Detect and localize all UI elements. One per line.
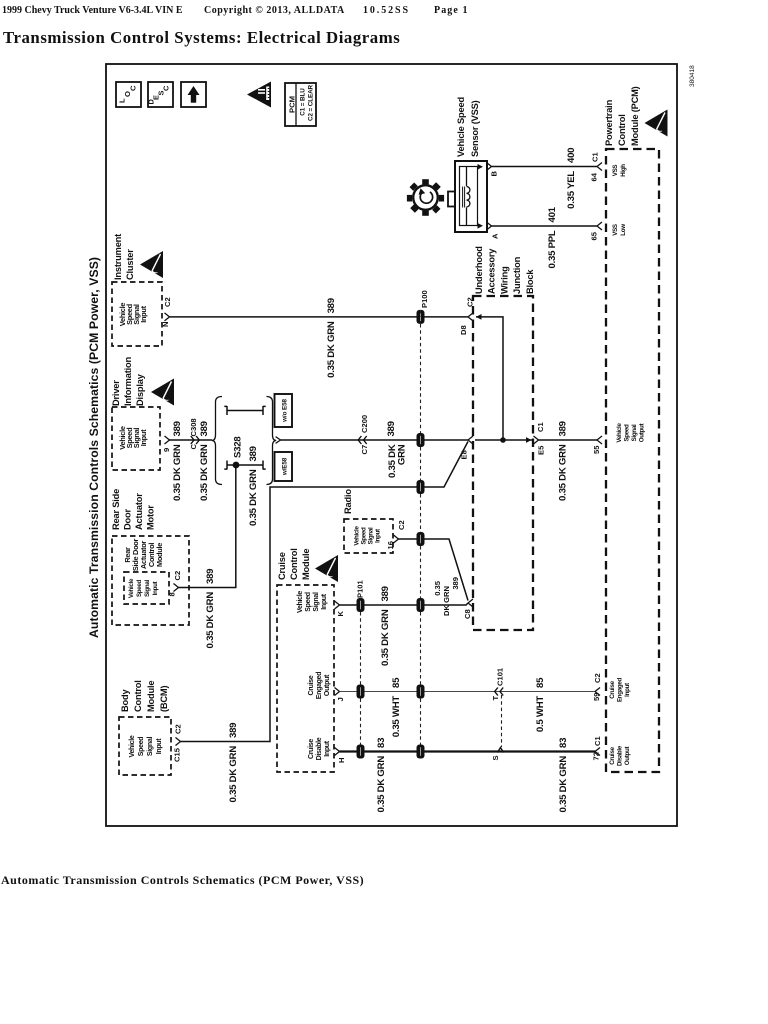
svg-text:380418: 380418 [689, 65, 696, 87]
wire pin K to junction C8 [340, 603, 469, 605]
svg-text:389: 389 [380, 586, 391, 601]
svg-text:0.35 PPL: 0.35 PPL [547, 230, 558, 268]
svg-text:Actuator: Actuator [134, 493, 144, 530]
svg-text:Input: Input [139, 429, 148, 446]
svg-text:B: B [490, 171, 499, 177]
junction internal arrowhead at D8 [476, 314, 482, 320]
wire VSS B to PCM 64 [492, 166, 598, 168]
svg-text:Engaged: Engaged [316, 672, 323, 699]
pin E8 chevron [468, 436, 473, 444]
pin 9 chevron [165, 436, 170, 444]
inline connector barrel on K wire at harness [417, 598, 425, 612]
VSS core lines [463, 187, 465, 208]
svg-text:389: 389 [199, 421, 210, 436]
svg-text:Input: Input [375, 529, 382, 543]
svg-text:Door: Door [123, 509, 133, 530]
pin J chevron [335, 688, 340, 696]
svg-text:Cruise: Cruise [277, 552, 287, 580]
svg-text:Low: Low [620, 224, 627, 236]
svg-text:VSS: VSS [612, 224, 619, 236]
pin D8 chevron [468, 313, 473, 321]
gear icon of VSS [399, 171, 451, 223]
svg-text:Control: Control [133, 680, 143, 712]
svg-text:0.5 WHT: 0.5 WHT [535, 696, 546, 732]
svg-text:A: A [491, 233, 500, 239]
svg-text:C200: C200 [360, 415, 369, 433]
VSS inner winding box [460, 167, 478, 226]
svg-text:w/o E58: w/o E58 [282, 399, 289, 423]
wire pin 8 to splice S328 [179, 467, 236, 588]
w/o E58 tag box [275, 394, 293, 427]
svg-text:Cruise: Cruise [609, 746, 616, 764]
svg-text:C2: C2 [174, 724, 183, 734]
svg-text:389: 389 [386, 421, 397, 436]
svg-text:S: S [491, 755, 500, 760]
svg-text:C2: C2 [593, 673, 602, 683]
icon box up-arrow [181, 82, 206, 107]
svg-text:Speed: Speed [624, 424, 631, 442]
rear side door actuator motor outer box [112, 536, 189, 625]
svg-text:Transmission Control Systems:: Transmission Control Systems: Electrical… [3, 28, 400, 47]
svg-text:389: 389 [205, 569, 216, 584]
svg-text:C2 = CLEAR: C2 = CLEAR [308, 84, 315, 120]
svg-text:Block: Block [525, 269, 535, 294]
svg-text:Control: Control [617, 114, 627, 146]
svg-text:Vehicle: Vehicle [354, 526, 361, 546]
svg-text:Control: Control [289, 548, 299, 580]
svg-text:10.52SS: 10.52SS [363, 5, 410, 16]
svg-text:Vehicle: Vehicle [297, 591, 304, 613]
svg-text:Output: Output [324, 674, 331, 696]
svg-text:55: 55 [592, 445, 601, 454]
svg-text:C1: C1 [536, 422, 545, 432]
svg-text:w/E58: w/E58 [282, 457, 289, 476]
VSS connector tab [448, 192, 455, 207]
inline connector P100 barrel [417, 310, 425, 324]
svg-text:Module: Module [146, 681, 156, 712]
pin 55 chevron [597, 436, 602, 444]
svg-text:C2: C2 [397, 520, 406, 530]
svg-text:Motor: Motor [146, 505, 156, 530]
wire pin H to PCM 72 (heavy) [340, 750, 596, 752]
svg-text:Input: Input [321, 593, 328, 610]
junction internal arrowhead at E5 [526, 437, 532, 443]
svg-text:64: 64 [590, 172, 599, 181]
svg-text:L: L [118, 98, 127, 103]
C101 connector link T to S [501, 695, 503, 747]
wire pin 9 to C308 [170, 439, 213, 441]
svg-text:0.35 YEL: 0.35 YEL [566, 171, 577, 209]
hotlink triangle (PCM) [645, 110, 668, 137]
harness connector line P101 (dashed) [360, 612, 362, 745]
wire to junction block E8 via C200 [281, 439, 469, 441]
svg-text:GRN: GRN [397, 444, 408, 465]
inline connector C200 chevrons [358, 436, 367, 444]
inline connector P101 barrel on K wire [357, 598, 365, 612]
svg-text:Vehicle: Vehicle [129, 735, 136, 757]
svg-text:Disable: Disable [316, 737, 323, 760]
svg-text:0.35 DK GRN: 0.35 DK GRN [228, 746, 239, 803]
rear side door actuator control module box [124, 572, 169, 604]
svg-text:83: 83 [376, 738, 387, 748]
svg-text:85: 85 [535, 677, 546, 688]
svg-text:Sensor (VSS): Sensor (VSS) [470, 100, 480, 157]
svg-text:Speed: Speed [305, 592, 312, 612]
wire C15 to junction E8 [181, 442, 469, 742]
svg-text:C101: C101 [496, 667, 505, 686]
svg-text:0.35 DK GRN: 0.35 DK GRN [380, 609, 391, 666]
svg-text:389: 389 [326, 298, 337, 313]
svg-text:Cruise: Cruise [308, 739, 315, 759]
w/E58 alternative wire segment [224, 461, 265, 470]
svg-text:0.35 DK GRN: 0.35 DK GRN [199, 444, 210, 501]
svg-text:Cruise: Cruise [609, 680, 616, 698]
svg-text:Signal: Signal [313, 592, 320, 612]
junction internal node [500, 437, 506, 443]
inline connector P101 barrel on H wire [357, 745, 365, 759]
svg-text:Display: Display [135, 373, 145, 406]
svg-text:Body: Body [120, 689, 130, 712]
svg-text:0.35 WHT: 0.35 WHT [391, 696, 402, 738]
pin 59 chevron [595, 688, 600, 696]
pin N chevron [165, 313, 170, 321]
svg-text:Vehicle: Vehicle [128, 578, 135, 598]
svg-text:59: 59 [592, 693, 601, 701]
svg-text:Rear Side: Rear Side [111, 489, 121, 530]
svg-text:0.35 DK GRN: 0.35 DK GRN [248, 469, 259, 526]
svg-text:Cruise: Cruise [308, 675, 315, 695]
svg-text:N: N [161, 322, 170, 327]
w/E58 tag box [275, 452, 293, 481]
pin B chevron [487, 163, 492, 171]
svg-text:0.35 DK GRN: 0.35 DK GRN [376, 756, 387, 813]
pin K chevron [335, 601, 340, 609]
svg-text:Radio: Radio [343, 489, 353, 514]
svg-text:DK GRN: DK GRN [442, 586, 451, 616]
wire N/C2 to junction block D8 [170, 316, 469, 318]
svg-text:Disable: Disable [617, 745, 624, 766]
svg-text:Vehicle Speed: Vehicle Speed [456, 97, 466, 157]
svg-text:Output: Output [624, 747, 631, 766]
svg-text:0.35 DK GRN: 0.35 DK GRN [172, 444, 183, 501]
svg-text:Driver: Driver [111, 380, 121, 406]
pin A chevron [487, 222, 492, 230]
pin 8 chevron [174, 584, 179, 592]
right option brace [267, 397, 277, 485]
svg-text:8: 8 [168, 592, 177, 596]
inline connector barrel on BCM wire at harness [417, 480, 425, 494]
svg-text:Junction: Junction [512, 256, 522, 294]
svg-text:K: K [336, 611, 345, 617]
svg-text:Cluster: Cluster [125, 249, 135, 280]
svg-text:16: 16 [386, 541, 395, 549]
svg-text:Information: Information [123, 357, 133, 406]
hotlink triangle (cruise control module) [315, 555, 338, 582]
legend box PCM connectors [285, 83, 316, 126]
svg-text:H: H [337, 758, 346, 763]
junction internal bus E8-E5 [475, 439, 533, 441]
w/o E58 alternative wire segment [224, 406, 265, 415]
svg-text:T: T [491, 696, 500, 701]
main diagram border [106, 64, 677, 826]
svg-text:D8: D8 [459, 325, 468, 335]
svg-text:Input: Input [156, 738, 163, 755]
svg-text:PCM: PCM [288, 96, 297, 113]
inline connector C308 chevrons [191, 436, 200, 444]
svg-text:Input: Input [624, 683, 631, 697]
svg-text:Instrument: Instrument [113, 234, 123, 280]
wire pin 16 to junction C8 [399, 539, 469, 601]
pin C15 chevron [176, 738, 181, 746]
svg-text:C2: C2 [173, 571, 182, 581]
VSS internal arrowhead A [478, 223, 484, 229]
inline connector S chevron on H wire [498, 748, 504, 753]
svg-text:Engaged: Engaged [617, 677, 624, 702]
svg-text:0.35 DK GRN: 0.35 DK GRN [558, 444, 569, 501]
svg-text:E5: E5 [537, 445, 546, 455]
svg-text:83: 83 [558, 738, 569, 748]
svg-text:Underhood: Underhood [474, 246, 484, 294]
svg-text:Powertrain: Powertrain [604, 99, 614, 146]
junction internal bus D8-E8 [476, 317, 503, 440]
icon up-arrow glyph [188, 86, 200, 95]
svg-text:C1 = BLU: C1 = BLU [300, 88, 307, 116]
svg-text:400: 400 [566, 148, 577, 163]
inline connector C101 chevrons on J wire [495, 688, 504, 696]
svg-text:0.35 DK GRN: 0.35 DK GRN [558, 756, 569, 813]
pin C8 chevron [468, 599, 473, 607]
splice S328 [233, 462, 240, 469]
svg-text:High: High [620, 164, 627, 177]
svg-text:0.35 DK GRN: 0.35 DK GRN [205, 592, 216, 649]
inline connector barrel on H wire at harness [417, 745, 425, 759]
svg-text:Automatic Transmission Control: Automatic Transmission Controls Schemati… [1, 873, 364, 887]
pin 64 chevron [597, 163, 602, 171]
inline connector P101 barrel on J wire [357, 685, 365, 699]
pin E5 chevron [534, 436, 539, 444]
svg-text:VSS: VSS [612, 165, 619, 177]
svg-text:Signal: Signal [368, 527, 375, 544]
inline connector barrel on J wire at harness [417, 685, 425, 699]
hotlink triangle (toolbar) [247, 82, 271, 108]
svg-text:Signal: Signal [631, 424, 638, 441]
svg-text:C15: C15 [173, 747, 182, 762]
svg-text:389: 389 [248, 446, 259, 461]
svg-text:85: 85 [391, 677, 402, 688]
svg-text:Module: Module [301, 549, 311, 580]
svg-text:Accessory: Accessory [487, 248, 497, 294]
svg-text:Output: Output [639, 424, 646, 443]
svg-text:Wiring: Wiring [499, 266, 509, 294]
driver information display box [112, 407, 160, 470]
wire E5 to PCM pin 55 [539, 439, 598, 441]
VSS coil [467, 167, 470, 226]
svg-text:J: J [336, 697, 345, 701]
svg-text:P101: P101 [356, 579, 365, 598]
svg-text:Page 1: Page 1 [434, 5, 469, 16]
hotlink triangle (instrument cluster) [140, 251, 163, 278]
svg-text:0.35: 0.35 [433, 580, 442, 596]
svg-text:Module (PCM): Module (PCM) [630, 86, 640, 146]
VSS outer box [455, 161, 487, 232]
svg-text:Input: Input [139, 305, 148, 322]
svg-text:(BCM): (BCM) [159, 686, 169, 712]
inline connector barrel on radio wire [417, 532, 425, 546]
icon box LOC [116, 82, 141, 107]
svg-text:Module: Module [155, 543, 164, 567]
wire pin J to PCM 59 (thin) [340, 691, 596, 693]
svg-text:9: 9 [162, 448, 171, 452]
wire VSS A to PCM 65 [492, 225, 598, 227]
svg-text:0.35 DK GRN: 0.35 DK GRN [326, 321, 337, 378]
svg-text:C: C [189, 444, 198, 450]
svg-text:65: 65 [590, 231, 599, 240]
icon box DESC [148, 82, 173, 107]
radio box [344, 519, 393, 553]
svg-text:1999 Chevy Truck Venture V6-3.: 1999 Chevy Truck Venture V6-3.4L VIN E [2, 5, 183, 16]
svg-text:C2: C2 [163, 297, 172, 307]
svg-text:389: 389 [228, 723, 239, 738]
hotlink triangle (driver information display) [151, 379, 174, 406]
svg-text:Input: Input [152, 581, 159, 595]
svg-text:C1: C1 [593, 736, 602, 746]
PCM box [606, 149, 659, 772]
pin chevron after braces [276, 437, 281, 444]
svg-text:Copyright © 2013, ALLDATA: Copyright © 2013, ALLDATA [204, 5, 345, 16]
instrument cluster box [112, 282, 162, 346]
svg-text:389: 389 [172, 421, 183, 436]
svg-text:72: 72 [592, 752, 601, 760]
svg-text:Speed: Speed [136, 579, 143, 597]
svg-text:C8: C8 [463, 609, 472, 619]
svg-text:389: 389 [558, 421, 569, 436]
svg-text:C7: C7 [360, 445, 369, 455]
cruise control module box [277, 585, 334, 772]
underhood junction block box [473, 296, 533, 630]
pin 72 chevron [595, 748, 600, 756]
svg-text:Signal: Signal [147, 737, 154, 757]
svg-text:Speed: Speed [361, 527, 368, 545]
pin H chevron [335, 748, 340, 756]
pin 16 chevron [394, 535, 399, 543]
BCM box [119, 717, 171, 775]
svg-text:S328: S328 [233, 436, 244, 458]
svg-text:Input: Input [324, 740, 331, 757]
harness connector line P100 (dashed) [420, 310, 422, 745]
pin 65 chevron [597, 222, 602, 230]
svg-text:Vehicle: Vehicle [616, 423, 623, 443]
svg-text:C308: C308 [189, 418, 198, 436]
svg-text:C1: C1 [591, 152, 600, 162]
svg-text:401: 401 [547, 206, 558, 222]
svg-text:P100: P100 [420, 290, 429, 308]
inline connector barrel on C200 wire [417, 433, 425, 447]
svg-text:Automatic Transmission Control: Automatic Transmission Controls Schemati… [87, 257, 101, 638]
svg-text:Signal: Signal [144, 580, 151, 597]
left option brace [212, 397, 222, 485]
svg-text:Speed: Speed [138, 737, 145, 757]
VSS internal arrowhead B [478, 164, 484, 170]
svg-text:389: 389 [451, 577, 460, 590]
svg-text:C: C [129, 85, 138, 91]
svg-text:C: C [162, 85, 171, 91]
